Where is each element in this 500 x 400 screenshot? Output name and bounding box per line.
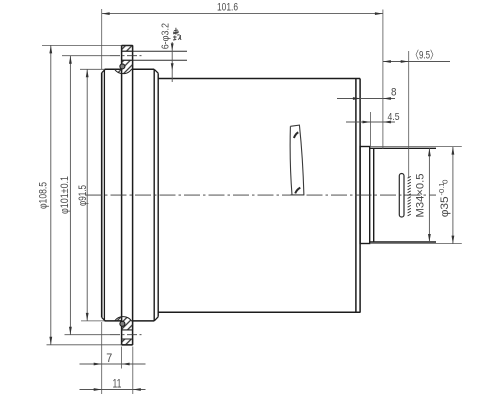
text junbu (evenly spaced)	[173, 28, 181, 41]
flange section hatch bottom upper with relief arc	[115, 317, 133, 330]
extension line rear face plane	[382, 10, 384, 150]
extension line bolt circle bottom left	[65, 334, 111, 336]
extension line bolt circle top left	[62, 55, 110, 57]
thread runout serration	[408, 176, 411, 216]
svg-text:φ91.5: φ91.5	[77, 185, 89, 206]
dimension phi91.5	[77, 69, 89, 321]
svg-text:4.5: 4.5	[388, 111, 400, 123]
extension line thread end	[408, 51, 410, 177]
flange section hatch top lower with relief arc	[115, 60, 133, 73]
extension line bezel front bottom	[101, 322, 103, 394]
flange front face line	[121, 46, 123, 345]
svg-text:8: 8	[391, 87, 397, 99]
ring extension lines right	[370, 147, 462, 244]
dimension 4.5	[346, 111, 400, 123]
svg-text:φ101±0.1: φ101±0.1	[59, 176, 71, 214]
dimension 7	[80, 353, 146, 365]
lens element outline	[290, 125, 304, 195]
extension line flange top left	[42, 44, 122, 46]
barrel chamfer top	[154, 69, 158, 73]
centerline	[86, 194, 436, 196]
svg-text:φ35: φ35	[439, 196, 451, 217]
bezel chamfer edge line	[102, 69, 106, 321]
flange section hatch bottom lower	[122, 339, 133, 345]
chamfer edge line phi91.5 end	[153, 70, 155, 321]
flange section hatch top upper	[122, 46, 133, 52]
dimension phi35 0/-0.1	[437, 147, 454, 244]
svg-text:〈9.5〉: 〈9.5〉	[411, 49, 438, 62]
bolt circle dash line bottom	[110, 334, 144, 336]
dimension M34x0.5	[415, 148, 431, 242]
flange bolt hole band lines top	[122, 51, 187, 339]
flange outer edges	[122, 46, 133, 345]
extension line flange front bottom	[121, 347, 123, 369]
dimension (9.5)	[383, 49, 450, 63]
barrel chamfer bottom	[154, 317, 158, 321]
dimension 8	[337, 87, 397, 100]
leader 6-phi3.2	[161, 23, 174, 82]
svg-text:M34×0.5: M34×0.5	[415, 174, 427, 218]
main barrel outline	[158, 79, 360, 313]
bolt circle dash line top	[110, 55, 144, 57]
lens glass mark upper	[294, 132, 298, 138]
extension line bezel bottom left	[81, 320, 105, 322]
rear ring phi35	[360, 147, 370, 244]
svg-text:-0.1: -0.1	[437, 183, 446, 196]
dimension phi101 +-0.1	[59, 56, 72, 335]
phi91.5 outer surface top	[105, 69, 155, 321]
bolt head circle top	[120, 64, 125, 69]
threaded cylinder M34	[370, 148, 436, 242]
svg-text:11: 11	[113, 379, 122, 391]
extension line flange bottom left	[47, 344, 122, 346]
bolt head circle bottom	[120, 321, 125, 326]
dimension 101.6	[102, 2, 383, 70]
barrel front face line	[157, 73, 159, 317]
extension line bezel top left	[80, 68, 105, 70]
svg-text:φ108.5: φ108.5	[37, 182, 49, 209]
extension line ring right edge	[369, 112, 371, 147]
bezel front face	[101, 73, 103, 318]
lens glass mark lower	[295, 188, 300, 194]
dimension phi108.5	[37, 45, 52, 344]
svg-text:7: 7	[106, 353, 112, 365]
dimension 11	[80, 379, 146, 391]
spanner slot	[399, 174, 404, 218]
svg-text:6-φ3.2: 6-φ3.2	[161, 23, 172, 50]
svg-text:101.6: 101.6	[217, 2, 238, 14]
extension line flange back bottom	[132, 347, 134, 395]
